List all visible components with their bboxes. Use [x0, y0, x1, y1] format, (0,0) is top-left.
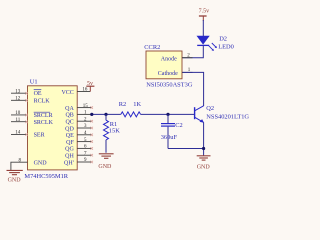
pin QE 4 — [66, 131, 93, 139]
svg-text:GND: GND — [34, 161, 48, 167]
pin QH 7 — [65, 151, 93, 159]
svg-text:SER: SER — [34, 133, 45, 139]
transistor Q2 — [195, 105, 250, 123]
svg-text:U1: U1 — [30, 79, 38, 86]
pin QH' 9 — [64, 158, 93, 166]
wire Q2 emitter down — [203, 122, 205, 155]
svg-text:VCC: VCC — [61, 90, 73, 96]
svg-text:14: 14 — [15, 131, 21, 136]
pin OE 13 — [11, 89, 42, 96]
svg-text:15: 15 — [83, 104, 89, 109]
svg-text:OE: OE — [34, 91, 42, 97]
ground (Q2 emitter) — [197, 156, 211, 171]
pin SRCLK 11 — [11, 118, 54, 126]
pin SRCLR 10 — [11, 111, 53, 119]
svg-text:NSS40201LT1G: NSS40201LT1G — [206, 114, 249, 121]
svg-text:GND: GND — [98, 164, 112, 170]
wire R2 to Q2 base — [141, 113, 195, 115]
node junction R1/R2 — [104, 113, 107, 116]
svg-text:13: 13 — [15, 89, 21, 94]
svg-text:SRCLK: SRCLK — [34, 120, 54, 126]
svg-text:NSI50350AST3G: NSI50350AST3G — [146, 81, 193, 88]
svg-text:QG: QG — [65, 147, 74, 153]
svg-text:12: 12 — [15, 97, 21, 102]
junction dot (QB pin) — [90, 113, 93, 116]
wire 7.5v to LED anode — [202, 20, 204, 36]
chip U1 — [28, 79, 78, 170]
svg-text:Q2: Q2 — [206, 105, 214, 112]
svg-text:QA: QA — [65, 106, 74, 112]
pin QD 3 — [65, 124, 93, 132]
svg-text:7.5v: 7.5v — [199, 9, 210, 15]
power flag 5v (VCC) — [86, 81, 94, 92]
wire CCR2 cathode to Q2 collector — [183, 72, 204, 106]
svg-text:11: 11 — [15, 118, 20, 123]
wire QB to junction — [92, 113, 121, 115]
wire C2 to emitter node — [168, 148, 204, 150]
pin RCLK 12 — [11, 97, 50, 105]
svg-text:Anode: Anode — [161, 56, 177, 62]
pin SER 14 — [11, 131, 45, 139]
svg-text:360uF: 360uF — [161, 134, 178, 141]
wire LED cathode to CCR2 pin2 — [183, 46, 204, 58]
resistor R1 — [104, 114, 121, 152]
svg-text:GND: GND — [8, 177, 22, 183]
svg-text:LED0: LED0 — [218, 44, 234, 51]
pin QG 6 — [65, 145, 93, 153]
diode D2 LED — [197, 36, 217, 51]
svg-text:M74HC595M1R: M74HC595M1R — [24, 173, 68, 180]
svg-text:CCR2: CCR2 — [144, 44, 160, 51]
power flag 7.5v — [199, 9, 210, 21]
pin QB 1 — [65, 111, 91, 119]
svg-text:QD: QD — [65, 126, 74, 132]
capacitor C2 — [161, 113, 183, 149]
svg-text:QH: QH — [65, 154, 74, 160]
ground (pin 8) — [7, 170, 23, 183]
pin 2 — [182, 57, 193, 59]
svg-text:16: 16 — [82, 88, 88, 93]
svg-text:QB: QB — [65, 113, 73, 119]
svg-text:1K: 1K — [133, 101, 141, 108]
svg-text:R2: R2 — [119, 101, 126, 108]
pin QC 2 — [65, 117, 93, 125]
svg-text:Cathode: Cathode — [158, 71, 178, 77]
pin 1 — [182, 71, 193, 73]
CCR2 box — [144, 44, 182, 79]
resistor R2 — [119, 101, 142, 117]
svg-text:D2: D2 — [219, 36, 227, 43]
svg-text:10: 10 — [15, 111, 21, 116]
svg-text:QF: QF — [66, 140, 74, 146]
svg-text:15K: 15K — [109, 127, 120, 134]
svg-text:GND: GND — [197, 165, 211, 171]
svg-text:RCLK: RCLK — [34, 98, 51, 104]
junction dot emitter/C2 — [202, 147, 205, 150]
pin QA 15 — [65, 104, 93, 112]
svg-text:QH': QH' — [64, 160, 74, 166]
pin QF 5 — [66, 138, 93, 146]
svg-text:SRCLR: SRCLR — [34, 113, 53, 119]
ground (R1) — [98, 154, 113, 170]
svg-text:QC: QC — [65, 120, 73, 126]
svg-text:C2: C2 — [175, 122, 182, 129]
pin VCC 16 — [61, 88, 90, 96]
pin GND 8 — [11, 158, 47, 170]
svg-text:QE: QE — [66, 133, 74, 139]
